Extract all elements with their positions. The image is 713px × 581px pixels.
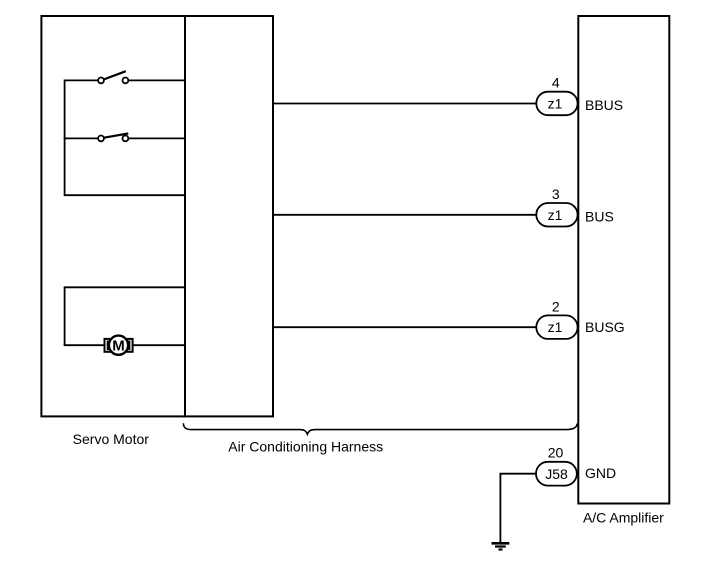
svg-text:4: 4 xyxy=(552,74,560,90)
motor M1 (circle M with brush housing) xyxy=(105,336,133,355)
switch SW2 (open, lever nearly flat) xyxy=(98,134,128,142)
wire: switch SW2 row left segment xyxy=(64,137,98,139)
connector z1 pin 3 oval xyxy=(536,203,577,227)
svg-text:z1: z1 xyxy=(548,319,563,335)
wire: motor branch left vertical xyxy=(64,287,66,345)
wire: switch branch left vertical xyxy=(64,80,66,195)
box: A/C Amplifier xyxy=(578,16,669,504)
wire: switch SW2 row right segment to harness xyxy=(128,137,185,139)
wire: motor row right segment to harness xyxy=(133,344,185,346)
switch SW1 (open, lever up) xyxy=(98,71,128,83)
wire: BUS wire harness to connector xyxy=(273,214,537,216)
wire: switch SW1 row right segment to harness xyxy=(128,79,185,81)
connector J58 pin 20 oval xyxy=(536,462,577,486)
svg-text:BUSG: BUSG xyxy=(585,319,625,335)
wire: switch SW1 row left segment xyxy=(64,79,98,81)
wire: BUSG wire harness to connector xyxy=(273,326,537,328)
svg-text:20: 20 xyxy=(548,445,564,461)
box: Air Conditioning Harness xyxy=(185,16,273,416)
wire: switch branch bottom row to harness xyxy=(64,194,185,196)
svg-text:A/C Amplifier: A/C Amplifier xyxy=(583,509,664,525)
svg-text:3: 3 xyxy=(552,186,560,202)
svg-text:Servo Motor: Servo Motor xyxy=(73,431,150,447)
wire: motor branch top row to harness xyxy=(64,286,185,288)
svg-text:J58: J58 xyxy=(545,466,568,482)
wire: BBUS wire harness to connector xyxy=(273,103,537,105)
brace: Air Conditioning Harness span xyxy=(183,423,577,434)
wire: motor row left segment xyxy=(64,344,105,346)
svg-text:BBUS: BBUS xyxy=(585,97,623,113)
svg-text:2: 2 xyxy=(552,298,560,314)
svg-text:BUS: BUS xyxy=(585,208,614,224)
svg-text:z1: z1 xyxy=(548,207,563,223)
svg-text:M: M xyxy=(112,338,125,355)
connector z1 pin 4 oval xyxy=(536,92,577,116)
box: Servo Motor component outline xyxy=(41,16,185,416)
wire: GND jog from J58 connector xyxy=(500,474,536,543)
svg-text:Air Conditioning Harness: Air Conditioning Harness xyxy=(228,438,383,454)
ground symbol xyxy=(492,543,510,549)
connector z1 pin 2 oval xyxy=(536,315,577,339)
svg-text:GND: GND xyxy=(585,465,616,481)
svg-text:z1: z1 xyxy=(548,96,563,112)
